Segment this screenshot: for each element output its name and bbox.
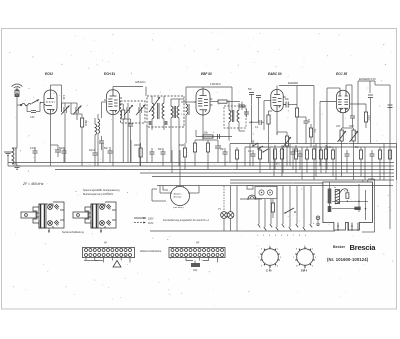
voltage selector VS1: [21, 202, 64, 233]
resistor row R40: [273, 145, 276, 170]
ground bus left: [4, 152, 12, 166]
legend 110V arrow: [134, 222, 154, 226]
right hook outline: [362, 179, 375, 232]
resistor row R41: [280, 145, 283, 177]
detector output run: [196, 130, 232, 139]
wire V2 anode to top rail: [113, 87, 143, 90]
connector strip X2: [169, 248, 225, 258]
wire V1 anode loop: [51, 85, 62, 112]
voltage selector VS2: [73, 202, 116, 233]
wire V2 cathode to bus: [112, 114, 114, 166]
power unit box: [323, 182, 373, 230]
svg-text:1,2k: 1,2k: [327, 146, 332, 149]
wire V5 grid left: [320, 102, 336, 167]
svg-text:50n: 50n: [158, 148, 163, 151]
svg-text:EABC 80: EABC 80: [268, 72, 282, 76]
svg-text:N12: N12: [193, 269, 198, 272]
svg-text:Adapter-: Adapter-: [174, 193, 183, 196]
T2 primary: [229, 110, 234, 122]
oscillator coil L4: [98, 114, 100, 166]
svg-text:220V: 220V: [148, 218, 154, 221]
wire switch to V1 grid: [43, 101, 45, 104]
terminal arrow numbers: [257, 235, 307, 237]
wire V5 anode loop: [327, 85, 352, 170]
coupling coil L3: [171, 99, 184, 166]
bottom long wire: [150, 230, 335, 232]
socket S41 pin numbers: [293, 246, 317, 271]
resistor R20 row: [134, 143, 142, 166]
svg-text:5kΩ: 5kΩ: [59, 147, 64, 150]
T1 wires: [146, 87, 164, 131]
coupling coil L5: [186, 99, 189, 143]
legend 220V arrow: [134, 217, 154, 221]
wire V5 cathode: [342, 113, 344, 128]
svg-text:EM4/EZ80 6,3V: EM4/EZ80 6,3V: [359, 78, 376, 81]
resistor R34 lower: [319, 147, 322, 173]
right edge wire column: [375, 81, 390, 229]
capacitor C9 coupling: [283, 92, 297, 108]
resistor R25 row: [327, 146, 335, 177]
wire top rail segment 3: [279, 86, 314, 144]
bus wire 1: [8, 162, 394, 164]
wire power box h1: [332, 201, 368, 203]
svg-text:ECH 81: ECH 81: [104, 72, 115, 76]
svg-text:HF: HF: [196, 242, 200, 245]
connector strip X1: [83, 248, 135, 258]
wire bus extension: [230, 182, 323, 184]
decoupling capacitor C28: [295, 150, 303, 170]
capacitor C1 antenna series: [15, 91, 19, 148]
svg-text:A05/4Zmt: A05/4Zmt: [135, 81, 146, 84]
decoupling capacitor C20: [30, 147, 38, 163]
svg-text:1M: 1M: [313, 129, 316, 132]
capacitor C5 oscillator: [99, 136, 104, 150]
output transformer right box: [363, 180, 373, 222]
wire power box h2: [332, 208, 360, 210]
decoupling capacitor C30: [370, 150, 375, 180]
svg-text:Betriebsspannung 125/220V: Betriebsspannung 125/220V: [83, 193, 114, 196]
svg-text:50n: 50n: [285, 98, 290, 101]
rectifier GR1: [335, 190, 339, 204]
bus crossing verticals left: [103, 126, 180, 180]
scan speckle noise: [9, 32, 393, 307]
svg-text:Fernbedienung ausgeliefert bi: Fernbedienung ausgeliefert bis Gerät Nr.…: [163, 219, 210, 222]
socket S40 pin numbers: [258, 246, 282, 271]
variable capacitor C4a: [124, 103, 133, 163]
tube V2 ECH81 envelope: [104, 90, 122, 115]
dial lamp LP1: [221, 186, 228, 231]
tube V1 EC92 envelope: [44, 90, 57, 114]
resistor row R42: [294, 145, 297, 173]
resistor R8 V4: [267, 111, 272, 163]
svg-text:25n: 25n: [220, 148, 225, 151]
decoupling capacitor C23: [104, 147, 113, 163]
T1 secondary coil: [162, 103, 164, 119]
bus wire 6: [230, 179, 394, 181]
bus wire 3: [55, 169, 394, 171]
strip X2 resistor N12: [186, 258, 218, 273]
input choke squiggle: [17, 103, 31, 106]
aux fuse box small: [247, 186, 253, 190]
svg-text:Spannungswähler Netzanpassung: Spannungswähler Netzanpassung: [83, 189, 120, 192]
svg-text:Gr: Gr: [334, 187, 337, 189]
adapter feed wires: [163, 186, 184, 191]
svg-text:EBF 80: EBF 80: [201, 72, 212, 76]
volume pot P1: [277, 132, 291, 166]
resistor R2: [81, 114, 84, 166]
T2 wires: [229, 100, 245, 140]
electrolytic capacitor C41: [328, 206, 332, 212]
diode detector resistor R5: [193, 140, 203, 166]
capacitor C8 detector: [208, 140, 221, 163]
power box inner wires: [358, 184, 366, 220]
svg-text:LST: LST: [336, 125, 341, 128]
adapter indicator M1: [170, 187, 190, 206]
svg-text:NST: NST: [349, 125, 354, 128]
capacitor C3 cathode: [51, 145, 62, 157]
resistor R27 row: [378, 147, 381, 180]
svg-text:110V: 110V: [148, 222, 154, 225]
label voltage selector heading: [83, 189, 120, 196]
resistor R7 V4 anode load: [295, 105, 298, 144]
svg-text:AF: AF: [104, 242, 108, 245]
pot P2 bass: [338, 128, 353, 177]
capacitor C32 lower: [291, 148, 296, 170]
switch contacts below power box: [337, 223, 358, 232]
wire V4 cathode: [276, 111, 278, 135]
long rail upper right: [230, 144, 397, 181]
resistor R30 power box: [346, 193, 349, 199]
T1 trimmer arrow: [149, 97, 160, 112]
svg-text:0,1m: 0,1m: [30, 147, 35, 150]
antenna trimmer CT2: [71, 103, 82, 120]
svg-text:ECC 85: ECC 85: [336, 72, 347, 76]
switch S1 antenna: [32, 100, 45, 104]
capacitor C11 top right: [368, 95, 373, 144]
resistor R3 V2 grid2: [120, 104, 125, 163]
svg-text:Wellenschalterleiste: Wellenschalterleiste: [140, 250, 162, 253]
svg-text:ZF = 460 kHz: ZF = 460 kHz: [22, 182, 44, 186]
resistor R10 right edge: [388, 150, 391, 159]
electrolytic capacitor C40: [328, 182, 332, 212]
resistor R6 detector: [203, 140, 210, 170]
capacitor C2 input: [27, 103, 40, 113]
decoupling capacitor C26: [220, 148, 228, 166]
svg-text:7V: 7V: [218, 208, 221, 211]
T1 primary coil: [152, 103, 159, 119]
svg-text:EM/EZ80: EM/EZ80: [288, 82, 299, 85]
svg-text:50n: 50n: [355, 146, 360, 149]
pot P3 treble: [350, 128, 359, 180]
dial lamp LP2: [227, 186, 234, 231]
bus wire 5: [152, 176, 394, 178]
capacitor C7 screen: [239, 102, 245, 110]
svg-text:40mA: 40mA: [89, 149, 96, 152]
IF transformer T1 frame: [147, 96, 184, 127]
tube socket view S40: [260, 247, 279, 273]
wire V4 anode: [277, 86, 279, 90]
svg-text:(Nr. 101600-100124): (Nr. 101600-100124): [327, 257, 369, 262]
svg-text:300Ω: 300Ω: [134, 144, 140, 147]
fuse F1: [240, 195, 262, 200]
svg-text:1MΩ: 1MΩ: [179, 144, 184, 147]
wire V2 grid left: [102, 102, 107, 118]
decoupling capacitor C29: [345, 150, 350, 173]
bus wire 2: [8, 165, 394, 167]
terminal row wires: [258, 186, 312, 230]
wire V1 anode drop: [62, 103, 66, 112]
oscillator coil L2: [95, 118, 97, 150]
capacitor C33 ift2: [243, 106, 249, 117]
T2 secondary: [237, 110, 239, 122]
capacitor C12 right edge: [388, 105, 393, 108]
capacitor C34 det out: [249, 120, 264, 129]
wire adapter connections: [152, 180, 199, 201]
capacitor C31 em grid: [297, 117, 310, 144]
resistor R45 aux: [271, 199, 274, 218]
decoupling capacitor C25: [158, 148, 166, 166]
tube V5 ECC85 envelope: [336, 90, 349, 112]
resistor row R43: [312, 145, 315, 180]
resistor R31 power box: [354, 207, 360, 210]
resistor R24 row: [305, 147, 308, 173]
tube V3 EBF80 envelope: [194, 89, 213, 115]
tuning gang frame: [121, 101, 146, 123]
wire heater rail: [358, 81, 375, 144]
wire V3 grid: [181, 101, 196, 103]
terminal socket left: [316, 216, 320, 225]
resistor R33 em: [309, 124, 316, 147]
svg-text:50n: 50n: [248, 88, 253, 91]
strip X1 pigtails: [84, 258, 130, 268]
wire loop in power box: [340, 189, 348, 194]
tube V4 EABC80 envelope: [271, 90, 286, 112]
ground antenna coil: [13, 164, 21, 169]
T1 tuning caps: [148, 121, 168, 125]
tube socket view S41: [295, 247, 314, 273]
svg-text:50n: 50n: [104, 147, 109, 150]
decoupling capacitor C27: [248, 150, 256, 166]
svg-text:EC92: EC92: [45, 72, 53, 76]
resistor R9: [350, 104, 368, 128]
antenna trimmer CT1: [61, 103, 71, 163]
wire trimmer feed: [71, 103, 82, 114]
decoupling capacitor C22: [89, 149, 98, 166]
hanger wire bottom section: [157, 185, 393, 187]
wire V1 cathode to bus: [50, 114, 52, 166]
coil L1 antenna: [12, 147, 17, 164]
decoupling capacitor C24: [150, 148, 155, 163]
svg-text:Netzanschlußleitung: Netzanschlußleitung: [62, 231, 84, 234]
svg-text:Anzeige: Anzeige: [174, 196, 183, 199]
phono jack J1: [255, 187, 277, 199]
wire lamp rail: [236, 186, 238, 231]
svg-text:Brescia: Brescia: [350, 243, 377, 252]
resistor R4 V3 screen: [210, 100, 240, 103]
wire V3 anode: [202, 87, 204, 89]
bus wire 4: [140, 172, 394, 174]
svg-text:(von oben): (von oben): [173, 207, 184, 209]
antenna A1: [12, 84, 23, 97]
resistor R22 row: [235, 147, 238, 170]
bus crossing verticals right: [250, 144, 384, 181]
capacitor C6 V2: [123, 119, 133, 163]
resistor row R44: [324, 145, 327, 173]
resistor R23 row: [258, 147, 261, 173]
variable capacitor C4b: [136, 103, 145, 166]
IF transformer T2 frame: [224, 106, 246, 128]
svg-text:10n: 10n: [307, 119, 310, 124]
svg-text:30kΩ: 30kΩ: [84, 120, 87, 126]
resistor R26 row: [355, 146, 363, 177]
capacitor C10: [350, 116, 355, 128]
wave switch contact bank: [252, 140, 268, 153]
resistor R21 row: [179, 143, 187, 170]
decoupling capacitor C21: [59, 147, 67, 163]
wire top rail segment 2: [186, 87, 232, 112]
svg-text:1,2k: 1,2k: [62, 95, 65, 100]
wire V4 grid left: [264, 101, 271, 131]
svg-text:4,85/4Zmt: 4,85/4Zmt: [210, 83, 221, 86]
svg-text:Becker: Becker: [333, 245, 346, 249]
svg-text:0,1M: 0,1M: [367, 115, 370, 120]
switch S2 mains: [284, 208, 296, 214]
wire V3 cathode: [202, 115, 204, 140]
EM grid cluster caps: [248, 88, 261, 144]
svg-text:C40: C40: [30, 116, 35, 119]
